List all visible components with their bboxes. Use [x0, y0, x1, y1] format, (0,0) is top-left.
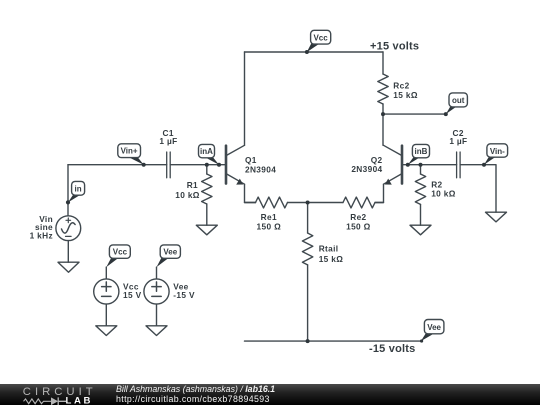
resistor Re1: [245, 202, 308, 204]
Q1 emitter arrow: [236, 179, 243, 185]
wire Rc2 to Q2 collector: [382, 114, 384, 145]
flag Vin+: [118, 144, 146, 167]
wire Q1 collector up: [244, 52, 246, 145]
voltage source Vin (sine): [56, 216, 81, 241]
node Rtail/bottom rail: [306, 339, 310, 343]
node R1/base junction: [205, 163, 209, 167]
flag Vcc source: [106, 245, 130, 267]
transistor Q2: [376, 145, 403, 202]
wire Vin to ground: [67, 241, 69, 263]
node Re1/Re2/Rtail: [306, 201, 310, 205]
capacitor C1: [167, 152, 171, 178]
Q2 emitter arrow: [385, 179, 392, 185]
node Rc2/out: [381, 112, 385, 116]
junction dots: [205, 112, 423, 343]
flag in: [66, 181, 85, 204]
svg-text:http://circuitlab.com/cbexb788: http://circuitlab.com/cbexb78894593: [116, 394, 270, 404]
wire Q2 base row: [402, 164, 457, 166]
wire Vin vertical: [67, 165, 69, 216]
transistor Q1: [226, 145, 256, 202]
voltage source Vcc: [105, 267, 107, 279]
wire C2 to Vin- corner: [460, 165, 496, 213]
wire main input row left: [68, 164, 167, 166]
footer bar: [0, 384, 540, 405]
flag Vee source: [157, 245, 181, 267]
wire top rail: [245, 51, 384, 53]
flag Vin-: [482, 144, 508, 167]
ground under R2: [410, 225, 431, 235]
resistor Rc2: [382, 52, 384, 114]
resistor R2: [420, 165, 422, 226]
svg-text:LAB: LAB: [66, 396, 94, 405]
wire C1 to Q1 base: [170, 164, 225, 166]
ground under Vcc source: [96, 326, 117, 336]
flag Vee bottom: [420, 320, 444, 343]
voltage source Vee: [156, 267, 158, 279]
wire bottom rail: [245, 340, 423, 342]
resistor R1: [206, 165, 208, 226]
ground under Vee source: [146, 326, 167, 336]
flag inB: [406, 144, 430, 166]
resistor Rtail: [307, 203, 309, 342]
ground under Vin- wire: [486, 212, 507, 222]
resistor Re2: [308, 202, 384, 204]
svg-text:Bill Ashmanskas (ashmanskas) /: Bill Ashmanskas (ashmanskas) / lab16.1: [116, 384, 275, 394]
wire out node to flag: [383, 113, 446, 115]
CircuitLab logo: [23, 386, 97, 405]
flag Vcc top: [305, 30, 331, 54]
flag out: [444, 93, 468, 116]
flags: [66, 30, 508, 342]
node R2 junction: [419, 163, 423, 167]
ground under Vin: [58, 262, 79, 272]
ground under R1: [196, 225, 217, 235]
flag inA: [199, 144, 222, 166]
capacitor C2: [457, 152, 461, 178]
